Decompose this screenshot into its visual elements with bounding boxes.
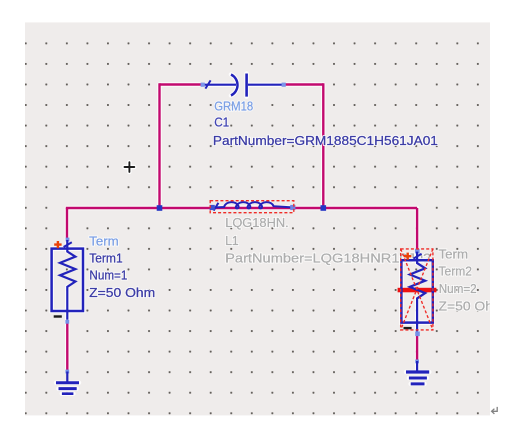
wire: middle horizontal net: [67, 207, 417, 208]
paragraph return mark: [492, 407, 498, 414]
svg-text:Num=2: Num=2: [439, 281, 477, 296]
L1 label: PartNumber parameter: [225, 251, 431, 266]
Term2 label: Z=50 Ohm parameter: [439, 299, 505, 314]
Term2 label: instance name Term2: [439, 264, 473, 279]
terminal Term2 (selected): [401, 249, 432, 336]
L1 pin node left: [210, 205, 215, 210]
capacitor C1: [204, 74, 282, 97]
svg-text:Term1: Term1: [89, 251, 123, 266]
Term2 label: library name Term: [439, 247, 469, 262]
svg-text:L1: L1: [225, 233, 239, 248]
wire: right vertical of top loop: [322, 83, 324, 208]
svg-text:LQG18HN.: LQG18HN.: [225, 215, 289, 230]
C1 label: PartNumber parameter: [213, 133, 438, 148]
Term2 selection box (red dashed with cross): [401, 249, 433, 330]
Term2 selection move-cross red bar: [398, 288, 437, 293]
junction node at left vertical / middle wire: [157, 205, 163, 211]
junction node at right vertical / middle wire: [321, 205, 327, 211]
inductor L1 (ghost-selected on wire): [212, 202, 290, 211]
terminal Term1: [52, 238, 83, 324]
white halo under wires and symbols: [52, 74, 433, 394]
svg-text:Z=50 Ohm: Z=50 Ohm: [439, 299, 505, 314]
L1 label: instance name L1: [225, 233, 239, 248]
wire: top net, left segment to C1: [160, 83, 202, 85]
Term1 label: library name Term: [89, 234, 119, 249]
wire: Term1 to ground: [66, 322, 68, 371]
svg-text:Z=50 Ohm: Z=50 Ohm: [89, 285, 155, 300]
L1 pin node right: [290, 205, 295, 210]
svg-text:GRM18: GRM18: [214, 99, 253, 114]
Term2 label: Num=2 parameter: [439, 281, 477, 296]
wire: drop to Term2 pin: [416, 208, 418, 249]
schematic canvas background: [25, 22, 490, 415]
wire: Term2 to ground: [416, 335, 418, 361]
Term1 label: instance name Term1: [89, 251, 123, 266]
ground GND2: [406, 360, 429, 384]
svg-text:PartNumber=GRM1885C1H561JA01: PartNumber=GRM1885C1H561JA01: [213, 133, 438, 148]
C1 label: instance name C1: [214, 115, 229, 130]
Term1 label: Z=50 Ohm parameter: [89, 285, 155, 300]
wire: top net, right segment from C1: [285, 83, 323, 85]
C1 label: library name GRM18: [214, 99, 253, 114]
svg-text:Term: Term: [89, 234, 119, 249]
wire: drop to Term1 pin: [66, 208, 68, 239]
svg-text:Num=1: Num=1: [89, 268, 127, 283]
ground GND1: [56, 370, 79, 394]
L1 selection box (red dashed): [210, 201, 294, 213]
svg-text:Term: Term: [439, 247, 469, 262]
L1 label: library name LQG18HN: [225, 215, 289, 230]
Term1 label: Num=1 parameter: [89, 268, 127, 283]
C1 pin node left: [201, 83, 205, 87]
svg-text:Term2: Term2: [439, 264, 473, 279]
svg-text:C1: C1: [214, 115, 229, 130]
wire: left vertical of top loop: [158, 83, 160, 208]
C1 pin node right: [282, 83, 286, 87]
insertion cursor crosshair: [125, 162, 135, 172]
